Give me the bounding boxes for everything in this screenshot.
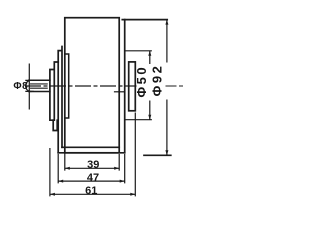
svg-text:39: 39 <box>87 159 99 171</box>
svg-text:Φ8: Φ8 <box>13 81 28 92</box>
svg-text:61: 61 <box>85 185 97 197</box>
svg-text:Φ50: Φ50 <box>134 65 149 98</box>
svg-text:Φ92: Φ92 <box>150 64 165 97</box>
svg-text:47: 47 <box>87 172 99 184</box>
